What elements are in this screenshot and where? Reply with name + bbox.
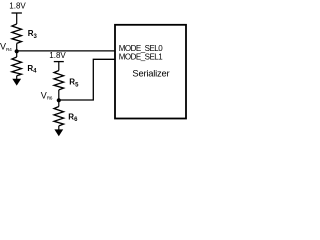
resistor R4 [12,57,22,76]
svg-text:MODE_SEL1: MODE_SEL1 [119,53,164,62]
svg-text:1.8V: 1.8V [49,51,66,60]
resistor R3 [12,24,22,43]
wire: rail to R5 top [58,62,60,71]
node VR6 junction dot [57,98,61,102]
resistor R6 [54,107,64,126]
wire: node VR4 to MODE_SEL0 pin [17,50,115,52]
wire: R3 bottom to node VR4 [16,43,18,57]
wire: rail to R3 top [16,13,18,24]
ground arrow (branch 1) [12,79,21,86]
resistor R5 [54,71,64,90]
power rail bar 1.8V (branch 2) [54,61,64,63]
power rail bar 1.8V (branch 1) [12,12,22,14]
wire: R5 bottom to node VR6 [58,90,60,107]
wire: node VR6 right then up to MODE_SEL1 pin [59,59,115,100]
svg-text:Serializer: Serializer [132,67,169,78]
wire: R6 bottom to ground arrow [58,126,60,130]
svg-text:1.8V: 1.8V [9,2,26,11]
serializer box U1 [115,25,186,119]
node VR4 junction dot [15,49,19,53]
wire: R4 bottom to ground arrow [16,76,18,80]
ground arrow (branch 2) [54,129,63,136]
